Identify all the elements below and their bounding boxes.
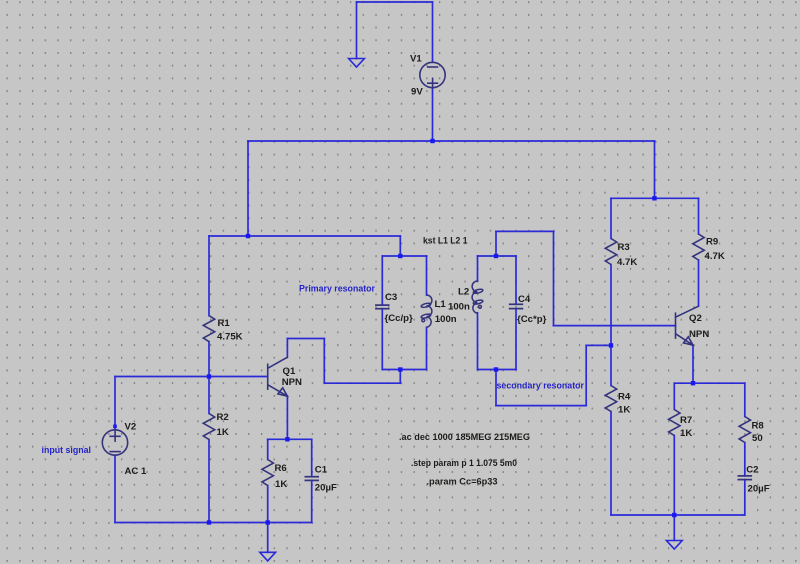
resistor R8 xyxy=(739,417,750,443)
resistor R4 xyxy=(605,386,616,412)
wire R1 top xyxy=(208,236,210,316)
wire R7 bottom xyxy=(673,436,675,516)
capacitor C4 xyxy=(509,304,523,308)
wire main supply bus xyxy=(248,140,655,142)
wire bottom right bus xyxy=(611,514,745,516)
svg-text:kst L1 L2 1: kst L1 L2 1 xyxy=(423,235,468,246)
voltage source V2 xyxy=(102,430,127,455)
wire primary loop bottom xyxy=(382,369,426,371)
wire secondary loop right lower xyxy=(515,309,517,370)
svg-text:.ac dec 1000 185MEG 215MEG: .ac dec 1000 185MEG 215MEG xyxy=(399,432,530,443)
svg-text:C2: C2 xyxy=(746,464,758,475)
wire into primary loop bottom xyxy=(399,370,401,384)
resistor R6 xyxy=(262,460,273,486)
wire ground stem right xyxy=(673,515,675,541)
svg-text:AC 1: AC 1 xyxy=(125,466,148,477)
svg-text:R2: R2 xyxy=(217,412,229,423)
wire C1 bottom xyxy=(311,480,313,522)
svg-text:V1: V1 xyxy=(410,54,422,65)
wire V2 bottom xyxy=(114,455,116,522)
svg-text:V2: V2 xyxy=(125,421,137,432)
svg-text:{Cc*p}: {Cc*p} xyxy=(517,314,547,325)
wire collector jog top xyxy=(287,338,324,340)
wire Q1 emitter drop xyxy=(286,396,288,439)
svg-text:secondary resonator: secondary resonator xyxy=(497,380,585,391)
wire R2 bottom xyxy=(208,440,210,523)
wire secondary bottom drop xyxy=(495,370,497,406)
svg-text:Q2: Q2 xyxy=(689,313,702,324)
capacitor C1 xyxy=(305,477,320,481)
svg-text:50: 50 xyxy=(752,433,763,444)
svg-text:C1: C1 xyxy=(315,464,328,475)
resistor R9 xyxy=(693,234,704,260)
wire to R4 node xyxy=(586,344,611,346)
svg-text:R6: R6 xyxy=(275,463,287,474)
wire emitter row xyxy=(268,438,312,440)
wire R4 bottom xyxy=(610,412,612,516)
wire Q1 base xyxy=(115,376,268,378)
wire secondary drop to base row xyxy=(553,231,555,325)
wire primary loop top xyxy=(382,255,426,257)
svg-text:R1: R1 xyxy=(218,318,231,329)
inductor L1 xyxy=(421,295,432,327)
svg-text:.step param p 1 1.075 5m0: .step param p 1 1.075 5m0 xyxy=(411,458,517,469)
wire secondary top rise xyxy=(495,231,497,256)
wire Q1 collector pin xyxy=(286,339,288,358)
wire secondary loop top xyxy=(478,255,517,257)
wire primary loop left lower xyxy=(381,309,383,370)
svg-text:R4: R4 xyxy=(618,392,631,403)
ground symbol bottom right xyxy=(666,541,682,550)
voltage source V1 xyxy=(420,62,445,89)
wire V1 bottom to bus xyxy=(432,88,434,141)
svg-text:1K: 1K xyxy=(680,428,692,439)
svg-text:L2: L2 xyxy=(458,286,469,297)
wire R6 bottom xyxy=(267,486,269,523)
wire secondary bottom rise xyxy=(585,345,587,405)
svg-text:R3: R3 xyxy=(618,242,630,253)
svg-text:4.7K: 4.7K xyxy=(705,251,725,262)
wire secondary top across xyxy=(496,230,554,232)
wire secondary loop bottom xyxy=(478,369,517,371)
svg-text:1K: 1K xyxy=(618,405,630,416)
wire secondary loop left upper xyxy=(477,256,479,281)
wire R8 top xyxy=(744,383,746,416)
svg-text:R9: R9 xyxy=(706,237,718,248)
transistor Q1 xyxy=(268,357,288,396)
ground symbol bottom left xyxy=(260,552,276,561)
svg-text:NPN: NPN xyxy=(282,377,302,388)
svg-text:R8: R8 xyxy=(752,420,765,431)
ground symbol top xyxy=(349,59,365,68)
wire bus right drop xyxy=(654,141,656,198)
wire secondary loop left lower xyxy=(477,313,479,370)
wire emitter row right xyxy=(674,382,745,384)
svg-text:NPN: NPN xyxy=(689,329,709,340)
wire node to primary top xyxy=(209,235,400,237)
resistor R3 xyxy=(605,239,616,265)
wire R9 bottom to Q2 collector xyxy=(698,260,700,306)
inductor L2 xyxy=(472,281,483,313)
wire top ground loop vertical xyxy=(356,2,358,59)
svg-text:Primary resonator: Primary resonator xyxy=(299,283,375,294)
svg-text:C4: C4 xyxy=(518,294,531,305)
svg-text:1K: 1K xyxy=(217,427,229,438)
svg-text:.param Cc=6p33: .param Cc=6p33 xyxy=(427,476,498,487)
svg-text:20µF: 20µF xyxy=(748,483,770,494)
svg-text:{Cc/p}: {Cc/p} xyxy=(385,313,414,324)
wire R1 bottom to base node xyxy=(208,342,210,377)
svg-text:1K: 1K xyxy=(275,479,287,490)
wire R9 top xyxy=(698,198,700,234)
svg-text:R7: R7 xyxy=(680,415,692,426)
transistor Q2 xyxy=(676,306,699,345)
wire primary loop right lower xyxy=(426,327,428,369)
wire bus left drop xyxy=(247,141,249,236)
wire top ground loop horizontal xyxy=(357,1,433,3)
wire into primary loop top xyxy=(399,236,401,256)
wire R2 top xyxy=(208,377,210,414)
resistor R7 xyxy=(669,410,680,436)
svg-text:L1: L1 xyxy=(435,299,447,310)
wire R3 top xyxy=(610,198,612,238)
wire R3 R9 rail xyxy=(611,197,699,199)
resistor R1 xyxy=(203,316,214,342)
wire R8 bottom to C2 xyxy=(744,443,746,476)
wire primary loop right upper xyxy=(426,256,428,295)
capacitor C2 xyxy=(738,476,753,480)
svg-text:Q1: Q1 xyxy=(283,366,296,377)
wire Q2 base xyxy=(554,325,676,327)
wire C2 bottom xyxy=(744,480,746,515)
wire collector jog drop xyxy=(323,339,325,384)
svg-text:4.7K: 4.7K xyxy=(617,257,637,268)
wire R6 top xyxy=(267,439,269,459)
svg-text:100n: 100n xyxy=(448,301,470,312)
svg-text:C3: C3 xyxy=(385,292,397,303)
svg-text:input signal: input signal xyxy=(42,445,92,456)
svg-text:4.75K: 4.75K xyxy=(217,331,243,342)
wire secondary loop right upper xyxy=(515,256,517,304)
resistor R2 xyxy=(203,414,214,440)
wire R3 bottom to R4 xyxy=(610,265,612,386)
svg-text:100n: 100n xyxy=(435,314,457,325)
wire V1 top xyxy=(432,2,434,62)
wire ground stem left xyxy=(267,523,269,553)
wire collector jog bottom xyxy=(324,382,400,384)
svg-text:20µF: 20µF xyxy=(315,482,337,493)
wire R7 top xyxy=(673,383,675,409)
wire bottom left bus xyxy=(115,522,312,524)
wire V2 top xyxy=(114,377,116,430)
svg-text:9V: 9V xyxy=(411,87,423,98)
wire C1 top xyxy=(311,439,313,476)
capacitor C3 xyxy=(375,305,389,309)
wire primary loop left upper xyxy=(381,256,383,305)
wire Q2 emitter drop xyxy=(692,345,694,383)
wire secondary bottom across xyxy=(496,405,586,407)
